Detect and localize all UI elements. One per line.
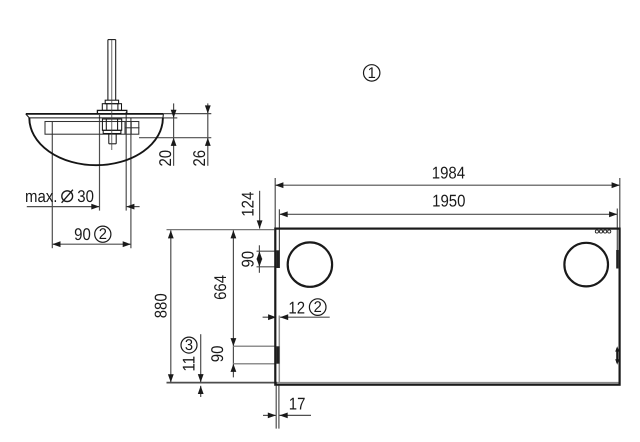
svg-text:90: 90 — [238, 251, 257, 268]
svg-text:664: 664 — [211, 275, 230, 300]
svg-text:1950: 1950 — [432, 192, 465, 211]
svg-text:90: 90 — [208, 346, 227, 363]
svg-text:30: 30 — [77, 187, 94, 206]
svg-text:124: 124 — [239, 192, 258, 217]
svg-text:1984: 1984 — [432, 163, 465, 182]
svg-text:26: 26 — [190, 150, 209, 167]
svg-text:1: 1 — [368, 65, 376, 82]
svg-text:2: 2 — [99, 226, 107, 243]
svg-text:3: 3 — [185, 337, 193, 354]
svg-text:880: 880 — [151, 293, 170, 318]
svg-text:90: 90 — [74, 225, 91, 244]
svg-text:2: 2 — [314, 299, 322, 316]
svg-text:12: 12 — [288, 298, 305, 317]
svg-text:17: 17 — [289, 394, 306, 413]
svg-text:max.: max. — [25, 187, 57, 206]
svg-text:20: 20 — [156, 150, 175, 167]
svg-text:11: 11 — [180, 356, 199, 372]
